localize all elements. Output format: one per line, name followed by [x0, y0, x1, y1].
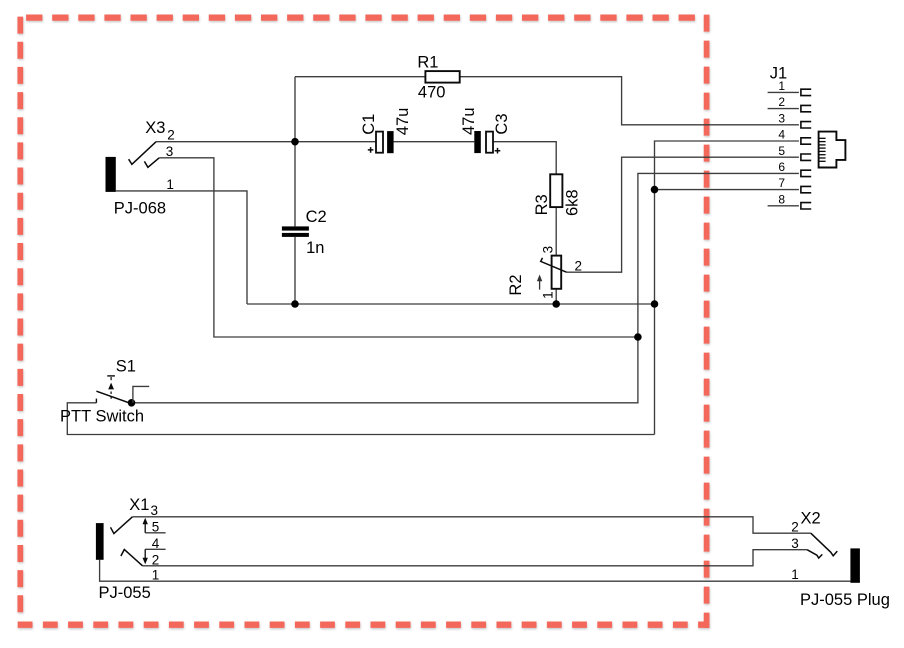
- connector X1 contact pin2: [121, 550, 143, 566]
- wire X3 pin1: [116, 191, 247, 304]
- wire X1 pin2 to X2 pin3: [143, 550, 808, 566]
- svg-text:X1: X1: [129, 496, 149, 514]
- svg-text:6: 6: [778, 160, 785, 174]
- resistor R3: [550, 174, 562, 207]
- wire X1 pin4 stub: [145, 548, 165, 550]
- node dot x638 y337: [634, 333, 642, 341]
- wire X3 pin2 to C1: [156, 141, 376, 143]
- wire J1 pin6 to S1: [132, 173, 799, 402]
- X1 pin5 arrow up: [143, 518, 148, 533]
- svg-text:R3: R3: [533, 194, 551, 215]
- wire J1 pin5 to R2 wiper: [567, 157, 799, 272]
- wire X1 pin1 to X2 sleeve: [100, 560, 851, 581]
- wire J1 pin8 stub: [768, 205, 799, 207]
- svg-text:5: 5: [152, 519, 160, 534]
- svg-text:4: 4: [778, 128, 785, 142]
- svg-text:1n: 1n: [306, 239, 324, 257]
- svg-text:C2: C2: [306, 208, 327, 226]
- svg-text:3: 3: [151, 503, 159, 518]
- connector X3 contact pin2: [129, 142, 157, 165]
- potentiometer R2: [537, 256, 567, 290]
- capacitor C3: [474, 131, 500, 154]
- wire C3 to R3 top: [493, 142, 556, 175]
- wire J1 pin1 stub: [768, 91, 799, 93]
- capacitor C2: [282, 226, 309, 237]
- svg-text:S1: S1: [116, 358, 136, 376]
- wire X1 pin5 stub: [145, 532, 165, 534]
- svg-text:X3: X3: [145, 119, 165, 137]
- wire R3 bottom to R2 top: [555, 207, 557, 256]
- svg-text:1: 1: [540, 291, 555, 299]
- svg-text:3: 3: [778, 111, 785, 125]
- wire J1 pin7: [655, 189, 799, 191]
- wire C2 top lead: [294, 142, 296, 227]
- svg-text:6k8: 6k8: [564, 189, 582, 216]
- wire vertical x=295 top corner to node: [294, 77, 296, 142]
- connector X1 jack body: [96, 523, 104, 560]
- svg-text:R1: R1: [417, 53, 438, 71]
- capacitor C1: [368, 131, 394, 153]
- wire R1 left lead: [295, 76, 425, 78]
- svg-text:R2: R2: [507, 275, 525, 296]
- wire long bus y=304: [247, 303, 655, 305]
- svg-text:C1: C1: [360, 114, 378, 135]
- svg-text:47u: 47u: [394, 108, 412, 136]
- wire X3 pin3 to node at x=638: [159, 158, 638, 337]
- wire C2 bottom lead: [294, 237, 296, 304]
- svg-text:7: 7: [778, 176, 785, 190]
- connector X2 contact pin3: [807, 550, 822, 558]
- node dot pin7 junction: [651, 186, 659, 194]
- node dot x295 y141: [291, 138, 299, 146]
- wire R2 bottom to node: [555, 289, 557, 304]
- connector X2 contact pin2: [811, 533, 838, 556]
- svg-text:2: 2: [778, 95, 785, 109]
- node dot x295 y304: [291, 300, 299, 308]
- svg-text:X2: X2: [801, 510, 821, 528]
- svg-text:2: 2: [791, 520, 799, 535]
- svg-text:4: 4: [152, 536, 160, 551]
- svg-text:2: 2: [575, 258, 583, 273]
- svg-text:3: 3: [540, 246, 555, 254]
- svg-text:3: 3: [166, 144, 174, 159]
- svg-text:2: 2: [167, 128, 175, 143]
- svg-text:5: 5: [778, 144, 785, 158]
- svg-text:3: 3: [791, 536, 799, 551]
- connector X3 jack body: [106, 157, 116, 192]
- connector X3 contact pin3: [144, 158, 159, 168]
- node dot R2 pin1: [552, 300, 560, 308]
- svg-text:PJ-055: PJ-055: [99, 584, 151, 602]
- svg-text:1: 1: [152, 568, 160, 583]
- switch S1: [96, 376, 149, 403]
- wire C1 to C3: [394, 141, 475, 143]
- wire X1 pin3 to X2 pin2: [132, 517, 810, 533]
- connector X1 contact pin3: [111, 517, 133, 534]
- wire J1 pin2 stub: [768, 108, 799, 110]
- svg-text:47u: 47u: [460, 107, 478, 135]
- resistor R1: [425, 71, 459, 83]
- svg-text:PTT Switch: PTT Switch: [60, 408, 144, 426]
- node dot S1: [128, 399, 136, 407]
- node dot x654 y304: [651, 300, 659, 308]
- svg-text:2: 2: [152, 553, 160, 568]
- wire S1 lower return: [67, 403, 654, 435]
- wire R1 right to J1 pin 3: [460, 77, 799, 125]
- connector X2 plug body: [850, 548, 860, 582]
- svg-text:1: 1: [166, 177, 174, 192]
- svg-text:8: 8: [778, 192, 785, 206]
- svg-text:PJ-055 Plug: PJ-055 Plug: [800, 591, 890, 609]
- X1 pin2 arrow down: [143, 549, 148, 564]
- svg-text:PJ-068: PJ-068: [114, 200, 166, 218]
- connector J1 pins: [801, 89, 811, 209]
- svg-text:470: 470: [418, 84, 446, 102]
- RJ45 jack symbol: [819, 132, 846, 168]
- svg-text:1: 1: [791, 567, 799, 582]
- svg-text:C3: C3: [493, 114, 511, 135]
- wire J1 pin4 vertical bus: [655, 141, 799, 435]
- svg-text:1: 1: [778, 79, 785, 93]
